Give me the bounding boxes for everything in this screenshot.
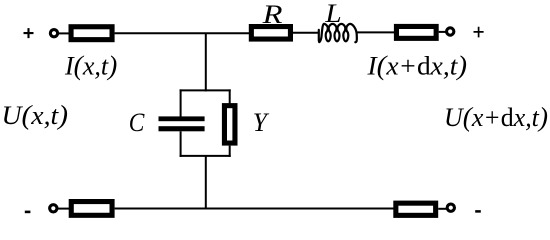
wire box to terminal top-right [439, 31, 447, 33]
impedance box top-left [71, 27, 112, 40]
loop right vertical lower [229, 146, 231, 157]
svg-text:U(x+dx,t): U(x+dx,t) [444, 101, 548, 132]
wire L to top-right box [357, 31, 397, 33]
parallel loop top wire [180, 89, 231, 91]
capacitor C top plate [159, 116, 205, 121]
wire R to inductor L [293, 32, 320, 34]
terminal bottom-left [50, 205, 57, 212]
capacitor C bottom plate [159, 126, 205, 131]
bottom wire [115, 208, 394, 210]
svg-text:C: C [129, 108, 145, 137]
minus sign bottom-left [25, 211, 31, 214]
loop left vertical upper [180, 89, 182, 117]
loop right vertical upper [229, 89, 231, 104]
svg-text:I(x+dx,t): I(x+dx,t) [366, 49, 467, 80]
admittance Y box [224, 106, 235, 143]
vertical stem from top wire to parallel block [205, 33, 207, 91]
impedance box bottom-right [396, 203, 436, 215]
inductor L coil [319, 24, 357, 42]
impedance box bottom-left [71, 202, 112, 216]
wire terminal to top-left box [59, 32, 72, 34]
plus sign top-right [474, 27, 484, 38]
svg-text:U(x,t): U(x,t) [2, 99, 69, 130]
terminal top-right [447, 28, 454, 35]
minus sign bottom-right [475, 210, 481, 213]
resistor R box [251, 27, 290, 40]
terminal bottom-right [447, 204, 454, 211]
plus sign top-left [24, 28, 34, 38]
impedance box top-right [396, 26, 436, 38]
wire top-left box to resistor R [115, 32, 251, 34]
svg-text:I(x,t): I(x,t) [64, 49, 117, 80]
parallel loop bottom wire [180, 155, 231, 157]
svg-text:Y: Y [253, 108, 270, 137]
vertical stem to bottom wire [205, 156, 207, 209]
wire terminal to bottom-left box [57, 208, 71, 210]
loop left vertical lower [180, 131, 182, 157]
wire box to terminal bottom-right [438, 208, 447, 210]
terminal top-left [50, 30, 57, 37]
